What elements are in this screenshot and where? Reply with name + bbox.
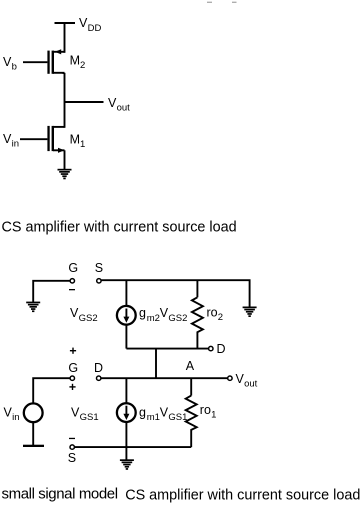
plus above G lower: [70, 348, 76, 354]
svg-text:M: M: [70, 54, 80, 68]
svg-text:D: D: [217, 342, 226, 356]
plus below G lower: [69, 384, 75, 390]
wire gate M1: [20, 138, 47, 140]
svg-text:CS amplifier with current sour: CS amplifier with current source load: [2, 219, 237, 235]
minus upper: [69, 289, 75, 290]
label G upper: [68, 261, 78, 275]
wire VDD to M2 source: [64, 23, 66, 53]
terminal S lower: [70, 445, 74, 449]
wire M1 source to ground: [64, 150, 66, 169]
label ro2: [207, 306, 224, 324]
label M1: [70, 132, 86, 150]
svg-text:2: 2: [80, 60, 85, 71]
svg-text:DD: DD: [88, 23, 102, 34]
svg-text:ro: ro: [207, 306, 218, 320]
terminal G upper: [70, 279, 74, 283]
label VGS1: [71, 405, 99, 423]
svg-text:S: S: [68, 451, 76, 465]
resistor ro2: [192, 297, 203, 348]
terminal G lower: [70, 376, 74, 380]
wire CS1 to S row and ground: [125, 423, 127, 460]
label M2: [70, 54, 86, 72]
svg-text:m2: m2: [147, 313, 160, 324]
ground bottom center: [120, 459, 134, 470]
svg-text:1: 1: [80, 139, 85, 150]
svg-text:2: 2: [218, 312, 223, 323]
label Vout top: [108, 96, 130, 114]
wire G lower to Vin: [33, 378, 70, 402]
label Vin top: [3, 132, 19, 150]
svg-text:out: out: [117, 102, 131, 113]
label A: [186, 359, 195, 373]
terminal Vout: [228, 376, 232, 380]
svg-text:G: G: [68, 261, 78, 275]
resistor ro1: [186, 396, 197, 448]
ground top right: [243, 307, 257, 318]
caption CS amplifier (bottom): [125, 488, 360, 504]
wire S row: [74, 446, 191, 448]
svg-text:b: b: [12, 61, 17, 72]
label S lower: [68, 451, 76, 465]
transistor M1: [47, 126, 64, 153]
current source gm2VGS2: [117, 306, 136, 325]
wire gate M2: [23, 61, 47, 63]
wire A row to ro1: [190, 378, 192, 395]
power VDD bar: [55, 22, 76, 24]
label gm2VGS2: [139, 306, 187, 324]
svg-text:GS2: GS2: [79, 313, 98, 324]
terminal D upper: [209, 346, 213, 350]
terminal S upper: [97, 279, 101, 283]
wire CS2 to D row: [125, 326, 127, 349]
wire A row to CS1: [125, 378, 127, 402]
svg-text:A: A: [186, 359, 195, 373]
wire M2 drain to M1 drain: [64, 73, 66, 128]
svg-text:in: in: [12, 412, 19, 423]
caption small signal model: [2, 486, 118, 503]
wire rail to ro2: [196, 280, 198, 297]
svg-text:g: g: [139, 405, 146, 419]
wire jog D row to A row: [155, 349, 157, 379]
wire top rail: [101, 280, 249, 307]
label Vin bottom: [4, 405, 20, 423]
source Vin: [24, 403, 43, 422]
node Vout wire: [65, 101, 104, 103]
svg-text:G: G: [68, 361, 78, 375]
label VGS2: [70, 306, 98, 324]
ground below M1: [58, 169, 72, 180]
caption CS amplifier (middle): [2, 219, 237, 235]
svg-text:out: out: [244, 378, 258, 389]
wire A row: [101, 377, 228, 379]
wire rail to CS2: [125, 280, 127, 305]
label VDD: [79, 16, 101, 34]
wire Vin to bottom bar: [32, 423, 34, 446]
minus above S lower: [69, 438, 75, 439]
current source gm1VGS1: [117, 403, 136, 422]
svg-text:small signal model: small signal model: [2, 486, 118, 503]
svg-text:GS2: GS2: [168, 313, 187, 324]
terminal D lower: [97, 376, 101, 380]
wire D row: [126, 348, 208, 350]
svg-text:D: D: [94, 361, 103, 375]
svg-text:in: in: [12, 138, 19, 149]
svg-text:CS amplifier with current sour: CS amplifier with current source load: [125, 488, 360, 504]
ground left (M2 gate): [26, 302, 40, 313]
label Vb: [3, 55, 17, 73]
svg-text:M: M: [70, 132, 80, 146]
stray mark 2: [232, 2, 237, 3]
svg-text:1: 1: [211, 409, 216, 420]
svg-text:S: S: [95, 261, 103, 275]
stray mark 1: [207, 2, 212, 3]
wire G to left ground: [33, 281, 70, 302]
label S upper: [95, 261, 103, 275]
transistor M2: [47, 49, 64, 74]
label D lower: [94, 361, 103, 375]
label ro1: [200, 403, 217, 421]
svg-text:m1: m1: [147, 412, 160, 423]
label gm1VGS1: [139, 405, 187, 423]
svg-text:g: g: [139, 306, 146, 320]
bar below Vin: [23, 445, 44, 447]
svg-text:ro: ro: [200, 403, 211, 417]
label G lower: [68, 361, 78, 375]
label Vout bottom: [236, 372, 258, 390]
svg-text:GS1: GS1: [80, 412, 99, 423]
label D upper: [217, 342, 226, 356]
